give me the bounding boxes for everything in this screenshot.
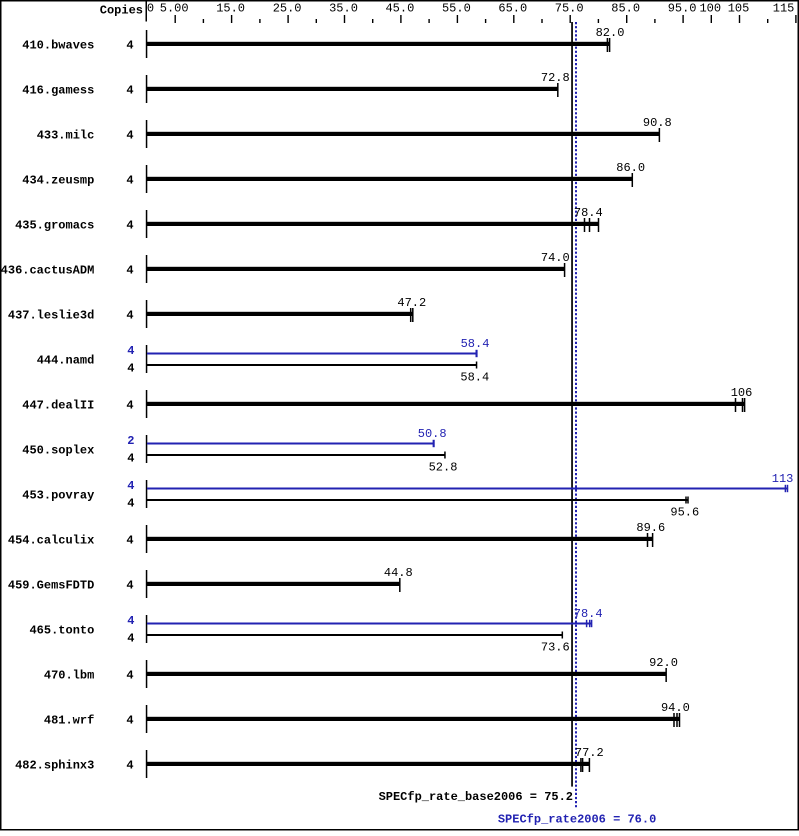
peak run tick — [586, 620, 588, 627]
whisker axis line — [146, 75, 148, 103]
bar 437.leslie3d value 47.2 — [147, 312, 413, 316]
svg-text:4: 4 — [126, 533, 133, 547]
svg-text:55.0: 55.0 — [442, 2, 471, 16]
bar 410.bwaves value 82.0 — [147, 42, 610, 46]
svg-text:4: 4 — [126, 668, 133, 682]
axis minor tick 20 — [259, 19, 260, 23]
bar 454.calculix value 89.6 — [147, 537, 653, 541]
axis minor tick 50 — [428, 19, 429, 23]
reference line SPECfp_rate_base2006 = 75.2 — [571, 22, 573, 787]
whisker axis line — [146, 570, 148, 598]
svg-text:4: 4 — [126, 83, 133, 97]
whisker axis line — [146, 300, 148, 328]
svg-text:444.namd: 444.namd — [37, 353, 95, 367]
svg-text:72.8: 72.8 — [541, 71, 570, 85]
svg-text:82.0: 82.0 — [596, 26, 625, 40]
run tick — [742, 398, 744, 412]
svg-text:4: 4 — [127, 451, 134, 465]
whisker axis line — [146, 525, 148, 553]
whisker axis line — [146, 30, 148, 58]
whisker axis line — [146, 390, 148, 418]
bar 433.milc value 90.8 — [147, 132, 659, 136]
svg-text:78.4: 78.4 — [574, 206, 603, 220]
svg-text:45.0: 45.0 — [385, 2, 414, 16]
run tick — [609, 38, 611, 52]
bar 459.GemsFDTD value 44.8 — [147, 582, 400, 586]
svg-text:SPECfp_rate2006 = 76.0: SPECfp_rate2006 = 76.0 — [498, 813, 656, 827]
svg-text:44.8: 44.8 — [384, 566, 413, 580]
svg-text:Copies: Copies — [100, 3, 143, 17]
base run tick — [685, 497, 687, 504]
benchmark row 436.cactusADM — [1, 251, 570, 283]
run tick — [580, 758, 582, 772]
whisker axis line — [146, 705, 148, 733]
base bar (black) 465.tonto value 73.6 — [147, 634, 562, 636]
svg-text:435.gromacs: 435.gromacs — [15, 218, 94, 232]
axis major tick 115 — [795, 15, 796, 23]
bar 416.gamess value 72.8 — [147, 87, 558, 91]
run tick — [607, 38, 609, 52]
bar 435.gromacs value 78.4 — [147, 222, 599, 226]
svg-text:459.GemsFDTD: 459.GemsFDTD — [8, 578, 94, 592]
bar 482.sphinx3 value 77.2 — [147, 762, 590, 766]
axis major tick 95 — [682, 15, 683, 23]
benchmark row 454.calculix — [8, 521, 665, 553]
svg-text:94.0: 94.0 — [661, 701, 690, 715]
svg-text:89.6: 89.6 — [636, 521, 665, 535]
svg-text:4: 4 — [126, 173, 133, 187]
svg-text:482.sphinx3: 482.sphinx3 — [15, 758, 94, 772]
benchmark row 482.sphinx3 — [15, 746, 604, 778]
svg-text:85.0: 85.0 — [611, 2, 640, 16]
run tick — [679, 713, 681, 727]
run tick — [647, 533, 649, 547]
svg-text:4: 4 — [126, 218, 133, 232]
base run tick — [687, 497, 689, 504]
run tick — [589, 218, 591, 232]
base bar (black) 450.soplex value 52.8 — [147, 454, 445, 456]
axis minor tick 40 — [372, 19, 373, 23]
svg-text:454.calculix: 454.calculix — [8, 533, 94, 547]
benchmark row 437.leslie3d — [8, 296, 426, 328]
benchmark row 444.namd — [37, 337, 490, 385]
whisker axis line — [146, 255, 148, 283]
svg-text:4: 4 — [127, 496, 134, 510]
svg-text:416.gamess: 416.gamess — [22, 83, 94, 97]
svg-text:SPECfp_rate_base2006 = 75.2: SPECfp_rate_base2006 = 75.2 — [379, 790, 573, 804]
bar 434.zeusmp value 86.0 — [147, 177, 632, 181]
run tick — [652, 533, 654, 547]
header separator line — [146, 2, 148, 22]
svg-text:4: 4 — [126, 38, 133, 52]
bar 436.cactusADM value 74.0 — [147, 267, 565, 271]
axis major tick 105 — [739, 15, 740, 23]
svg-text:73.6: 73.6 — [541, 641, 570, 655]
axis major tick 15 — [231, 15, 232, 23]
benchmark row 470.lbm — [44, 656, 678, 688]
svg-text:450.soplex: 450.soplex — [22, 443, 94, 457]
whisker axis line — [146, 615, 148, 643]
svg-text:113: 113 — [772, 472, 794, 486]
run tick — [598, 218, 600, 232]
whisker axis line — [146, 345, 148, 373]
svg-text:100: 100 — [699, 2, 721, 16]
svg-text:58.4: 58.4 — [461, 337, 490, 351]
svg-text:35.0: 35.0 — [329, 2, 358, 16]
svg-text:106: 106 — [731, 386, 753, 400]
axis major tick 55 — [457, 15, 458, 23]
svg-text:4: 4 — [127, 614, 134, 628]
benchmark row 433.milc — [37, 116, 672, 148]
svg-text:65.0: 65.0 — [498, 2, 527, 16]
svg-text:4: 4 — [127, 631, 134, 645]
run tick — [584, 218, 586, 232]
benchmark row 459.GemsFDTD — [8, 566, 413, 598]
run tick — [676, 713, 678, 727]
peak run tick — [476, 350, 478, 357]
peak bar (blue) 453.povray value 113 — [147, 488, 788, 490]
peak run tick — [787, 485, 789, 492]
svg-text:4: 4 — [126, 578, 133, 592]
benchmark row 450.soplex — [22, 427, 457, 475]
svg-text:50.8: 50.8 — [418, 427, 447, 441]
peak bar (blue) 450.soplex value 50.8 — [147, 443, 434, 445]
run tick — [673, 713, 675, 727]
svg-text:434.zeusmp: 434.zeusmp — [22, 173, 94, 187]
base bar (black) 453.povray value 95.6 — [147, 499, 688, 501]
svg-text:410.bwaves: 410.bwaves — [22, 38, 94, 52]
svg-text:75.0: 75.0 — [555, 2, 584, 16]
run tick — [412, 308, 414, 322]
whisker axis line — [146, 435, 148, 463]
svg-text:4: 4 — [126, 263, 133, 277]
svg-text:86.0: 86.0 — [616, 161, 645, 175]
benchmark row 453.povray — [22, 472, 793, 520]
svg-text:5.00: 5.00 — [160, 2, 189, 16]
whisker axis line — [146, 660, 148, 688]
base run tick — [476, 362, 478, 369]
svg-text:90.8: 90.8 — [643, 116, 672, 130]
axis minor tick 30 — [316, 19, 317, 23]
run tick — [410, 308, 412, 322]
axis major tick 35 — [344, 15, 345, 23]
axis major tick 45 — [400, 15, 401, 23]
svg-text:4: 4 — [127, 361, 134, 375]
peak run tick — [591, 620, 593, 627]
axis minor tick 70 — [541, 19, 542, 23]
benchmark row 434.zeusmp — [22, 161, 645, 193]
axis minor tick 60 — [485, 19, 486, 23]
svg-text:77.2: 77.2 — [575, 746, 604, 760]
bar 447.dealII value 106 — [147, 402, 745, 406]
run tick — [632, 173, 634, 187]
svg-text:78.4: 78.4 — [574, 607, 603, 621]
svg-text:2: 2 — [127, 434, 134, 448]
svg-text:105: 105 — [728, 2, 750, 16]
axis major tick 85 — [626, 15, 627, 23]
run tick — [399, 578, 401, 592]
axis minor tick 80 — [598, 19, 599, 23]
benchmark row 435.gromacs — [15, 206, 603, 238]
svg-text:465.tonto: 465.tonto — [29, 623, 94, 637]
svg-text:58.4: 58.4 — [460, 371, 489, 385]
svg-text:15.0: 15.0 — [216, 2, 245, 16]
whisker axis line — [146, 750, 148, 778]
svg-text:0: 0 — [147, 2, 154, 16]
peak run tick — [785, 485, 787, 492]
svg-text:453.povray: 453.povray — [22, 488, 94, 502]
run tick — [659, 128, 661, 142]
svg-text:481.wrf: 481.wrf — [44, 713, 94, 727]
svg-text:436.cactusADM: 436.cactusADM — [1, 263, 95, 277]
svg-text:4: 4 — [126, 713, 133, 727]
svg-text:115: 115 — [773, 2, 795, 16]
base run tick — [562, 632, 564, 639]
run tick — [564, 263, 566, 277]
svg-text:52.8: 52.8 — [429, 461, 458, 475]
svg-text:95.6: 95.6 — [670, 506, 699, 520]
run tick — [582, 758, 584, 772]
svg-text:4: 4 — [127, 344, 134, 358]
base run tick — [444, 452, 446, 459]
svg-text:4: 4 — [127, 479, 134, 493]
peak run tick — [589, 620, 591, 627]
base bar (black) 444.namd value 58.4 — [147, 364, 477, 366]
run tick — [557, 83, 559, 97]
run tick — [665, 668, 667, 682]
svg-text:92.0: 92.0 — [649, 656, 678, 670]
axis major tick 25 — [287, 15, 288, 23]
axis major tick 75 — [570, 15, 571, 23]
whisker axis line — [146, 120, 148, 148]
svg-text:74.0: 74.0 — [541, 251, 570, 265]
run tick — [589, 758, 591, 772]
benchmark row 465.tonto — [29, 607, 602, 655]
bar 470.lbm value 92.0 — [147, 672, 666, 676]
svg-text:25.0: 25.0 — [273, 2, 302, 16]
svg-text:470.lbm: 470.lbm — [44, 668, 94, 682]
axis major tick 5 — [175, 15, 176, 23]
axis major tick 100 — [711, 15, 712, 23]
svg-text:95.0: 95.0 — [668, 2, 697, 16]
whisker axis line — [146, 165, 148, 193]
svg-text:437.leslie3d: 437.leslie3d — [8, 308, 94, 322]
svg-text:4: 4 — [126, 128, 133, 142]
axis minor tick 90 — [654, 19, 655, 23]
axis minor tick 10 — [203, 19, 204, 23]
reference line SPECfp_rate2006 = 76.0 (blue dotted) — [575, 22, 577, 808]
benchmark row 416.gamess — [22, 71, 569, 103]
whisker axis line — [146, 210, 148, 238]
svg-text:447.dealII: 447.dealII — [22, 398, 94, 412]
benchmark row 481.wrf — [44, 701, 690, 733]
axis major tick 65 — [513, 15, 514, 23]
svg-text:4: 4 — [126, 308, 133, 322]
axis minor tick 110 — [767, 19, 768, 23]
peak run tick — [433, 440, 435, 447]
peak bar (blue) 465.tonto value 78.4 — [147, 623, 592, 625]
svg-text:4: 4 — [126, 398, 133, 412]
svg-text:4: 4 — [126, 758, 133, 772]
svg-text:433.milc: 433.milc — [37, 128, 95, 142]
peak bar (blue) 444.namd value 58.4 — [147, 353, 477, 355]
run tick — [744, 398, 746, 412]
whisker axis line — [146, 480, 148, 508]
run tick — [735, 398, 737, 412]
benchmark row 410.bwaves — [22, 26, 624, 58]
benchmark row 447.dealII — [22, 386, 752, 418]
svg-text:47.2: 47.2 — [397, 296, 426, 310]
bar 481.wrf value 94.0 — [147, 717, 680, 721]
